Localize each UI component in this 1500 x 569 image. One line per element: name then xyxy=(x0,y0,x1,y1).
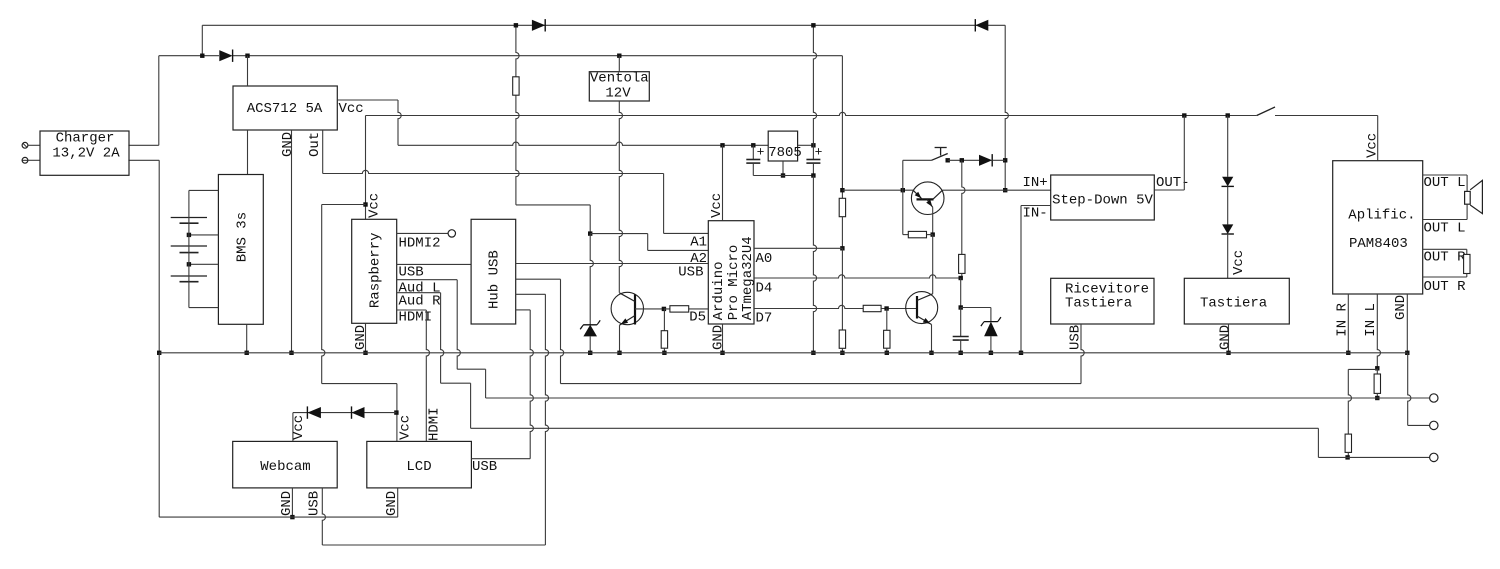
svg-text:HDMI: HDMI xyxy=(399,310,433,326)
diode D10 tastiera feed upper xyxy=(1227,116,1229,177)
junction A2 node xyxy=(588,231,592,235)
wire webcam diode feed (y=413) xyxy=(293,412,397,414)
svg-text:IN+: IN+ xyxy=(1023,175,1048,191)
stub wire to charger - terminal xyxy=(28,159,40,161)
wire aud R line (y=428) jog xyxy=(471,427,1319,429)
wire A0 node down to R5, hops over D4/D7 wires xyxy=(841,248,843,330)
svg-text:USB: USB xyxy=(307,491,323,516)
svg-text:Arduino: Arduino xyxy=(711,261,727,320)
wire down to A2 junction xyxy=(589,205,591,234)
wire A2 node to jog, hop over ventola wire xyxy=(590,233,648,235)
svg-text:ACS712 5A: ACS712 5A xyxy=(247,101,323,117)
transistor Q1 power switch (center 927.7,198) xyxy=(911,182,944,215)
svg-text:7805: 7805 xyxy=(768,145,802,161)
jack terminal circle 1 (aud L) xyxy=(1430,394,1438,402)
resistor R1 battery sense divider top (x=516) xyxy=(516,25,519,77)
wire left branch down through R11, hop over aud L line xyxy=(1348,369,1351,434)
wire charger- (y=160) xyxy=(128,159,159,161)
wire Z1 anode to ground rail xyxy=(589,336,591,352)
wire battery tap 2 to BMS (y=264) xyxy=(189,263,219,265)
wire Z2 down xyxy=(990,308,992,322)
svg-text:GND: GND xyxy=(711,325,727,350)
junction battery tap2 xyxy=(187,262,191,266)
capacitor C2 at 7805 output xyxy=(812,145,814,159)
svg-text:Hub USB: Hub USB xyxy=(487,250,503,309)
pin Webcam GND down xyxy=(291,488,293,517)
wire gnd to jack ring (y=425) xyxy=(1408,353,1411,426)
switch SW1 pushbutton xyxy=(932,154,948,161)
wire branch left from Raspberry Vcc node xyxy=(322,204,366,206)
junction cap/zener node xyxy=(959,305,963,309)
wire riser charger+ up to battery bus xyxy=(158,56,160,146)
wire Q1 lower pin down to Q2 collector node xyxy=(932,207,934,234)
junction Raspberry Vcc node (y=204) xyxy=(363,202,367,206)
pin Raspberry USB to hub xyxy=(397,263,471,265)
svg-text:HDMI2: HDMI2 xyxy=(399,236,441,252)
stub wire to charger + terminal xyxy=(28,144,40,146)
wire bottom ground return (y=517) xyxy=(159,516,398,518)
wire jog right at y=205 xyxy=(516,204,590,206)
block LCD xyxy=(367,441,472,488)
pin Ventola - down to fan transistor collector xyxy=(619,101,622,293)
junction R11 at aud R jack line xyxy=(1345,455,1349,459)
connector terminal circle + of charger xyxy=(22,142,28,148)
block Hub USB xyxy=(471,219,516,324)
svg-text:D7: D7 xyxy=(756,311,773,327)
svg-text:Vcc: Vcc xyxy=(1365,133,1381,158)
zener Z1 clamp on A2 xyxy=(583,325,597,337)
wire diode D3 cathode to 12V riser xyxy=(992,159,1005,161)
pin Raspberry HDMI down to LCD xyxy=(397,309,427,311)
junction tastiera diode feed at 5V rail xyxy=(1226,113,1230,117)
wire R1 bottom down to A2 node jog xyxy=(516,95,519,205)
resistor R4 A0 divider top xyxy=(839,198,845,216)
pin Hub USB port3 (y=294) xyxy=(516,293,546,295)
pin LCD USB right then up to hub xyxy=(471,458,530,460)
wire LCD Vcc riser down xyxy=(396,384,398,442)
block Tastiera keyboard xyxy=(1184,278,1289,324)
battery cell 3 plates xyxy=(171,275,207,277)
pin Hub USB port2 (y=279) xyxy=(516,278,561,280)
wire right to LCD Vcc riser (y=383.6) xyxy=(322,383,397,385)
wire D11 to Tastiera Vcc xyxy=(1227,234,1229,278)
junction D5 base node xyxy=(662,307,666,311)
wire R9 bottom to D4 node xyxy=(961,273,963,278)
svg-text:D5: D5 xyxy=(689,310,706,326)
wire into Arduino A2 xyxy=(648,249,709,251)
wire 7805 output (y=145) xyxy=(798,144,814,146)
jack terminal circle 3 (aud R) xyxy=(1430,453,1438,461)
wire switch line (y=160) to SW1 xyxy=(903,159,932,161)
wire R4 bottom to A0 node xyxy=(841,217,843,249)
battery cell 2 plates xyxy=(171,245,207,247)
wire down to webcam USB rail xyxy=(545,294,548,545)
svg-text:Aud R: Aud R xyxy=(399,294,442,310)
pin ACS712 IP+ top (x=247) xyxy=(247,56,249,86)
pin Hub USB port4 (y=310) xyxy=(516,309,531,311)
pin ACS712 IP- bottom to BMS xyxy=(247,130,249,175)
resistor R7 Q2 base pulldown xyxy=(886,309,888,331)
junction R1 top at 12V bus xyxy=(514,23,518,27)
junction power switch riser at y=190 xyxy=(901,188,905,192)
block Webcam xyxy=(233,441,338,488)
junction BMS at ground rail xyxy=(245,351,249,355)
pin BMS B- bottom to ground rail xyxy=(246,324,248,353)
junction battery tap1 xyxy=(187,233,191,237)
resistor R9 switch sense divider xyxy=(962,160,965,254)
svg-text:HDMI: HDMI xyxy=(427,407,443,441)
svg-text:Charger: Charger xyxy=(56,131,115,147)
pin Hub USB to Arduino USB (y=263.5) xyxy=(516,263,709,265)
wire down to webcam/lcd supply, hop over ground rail xyxy=(322,205,325,384)
wire into Arduino A1 (y=233) xyxy=(664,232,709,234)
wire aud R to jack sleeve (y=457) xyxy=(1318,456,1429,458)
block Aplific. PAM8403 xyxy=(1333,161,1423,294)
junction Ventola feed (619,56) xyxy=(617,54,621,58)
svg-text:BMS 3s: BMS 3s xyxy=(234,212,250,262)
junction webcam diode feed at LCD Vcc xyxy=(394,410,398,414)
wire Arduino A0 (y=248) xyxy=(754,247,842,249)
junction stepdown output riser at 5V rail xyxy=(1182,113,1186,117)
pin PAM8403 OUT L upper to speaker xyxy=(1423,174,1467,176)
wire riser ACS712 Vcc down to 7805 5V rail, hop over 5V stepdown bus xyxy=(398,100,401,145)
wire ricevitore USB rail (y=383.6) xyxy=(561,383,1082,385)
transistor Q2 (NPN, base left) xyxy=(906,292,938,324)
wire Out net (y=173) from ACS712 to Arduino A1 jog, hops over vertical wires xyxy=(323,170,664,173)
wire A2 node down to zener Z1, hop over USB wire xyxy=(590,234,593,325)
wire battery/charger bus (y=56) xyxy=(159,55,219,57)
svg-text:USB: USB xyxy=(472,459,497,475)
svg-text:Aplific.: Aplific. xyxy=(1348,208,1415,224)
svg-text:IN L: IN L xyxy=(1363,303,1379,337)
svg-text:+: + xyxy=(815,145,823,160)
wire SW1 to diode D4s xyxy=(948,159,979,161)
svg-text:Tastiera: Tastiera xyxy=(1200,296,1267,312)
block Ricevitore Tastiera xyxy=(1051,278,1154,324)
wire Arduino D4 (y=278) to switch sense node xyxy=(754,275,960,278)
wire charger- continues down to bottom gnd return xyxy=(158,353,160,517)
wire stepdown output riser up to 5V rail xyxy=(1183,116,1185,191)
pin Raspberry Aud L staircase to audio jack line xyxy=(397,279,458,281)
svg-text:USB: USB xyxy=(399,265,424,281)
block Ventola 12V fan xyxy=(589,72,649,101)
svg-text:Webcam: Webcam xyxy=(260,459,310,475)
block Raspberry xyxy=(352,219,397,323)
wire 12V bus down to 7805 (x=813), hop over battery bus and 5V rail xyxy=(813,25,816,145)
capacitor C3 debounce xyxy=(960,308,962,337)
svg-text:OUT R: OUT R xyxy=(1424,279,1467,295)
switch SW2 blade on 5V rail to amplifier xyxy=(1257,107,1275,116)
junction 12V bus at x=813 xyxy=(811,23,815,27)
junction ACS712 GND at rail xyxy=(289,351,293,355)
pin PAM8403 GND down xyxy=(1406,294,1408,353)
junction at (202,56) xyxy=(200,54,204,58)
svg-text:IN-: IN- xyxy=(1023,206,1048,222)
wire down to LCD USB wire xyxy=(530,310,533,459)
wire Q3 base to D5 resistor xyxy=(635,308,664,310)
pin PAM8403 IN R down to ground rail xyxy=(1347,294,1349,353)
block Charger 13,2V 2A xyxy=(40,131,129,175)
pin Ricevitore USB down to hub rail xyxy=(1081,324,1084,384)
ground rail main (y=353) xyxy=(159,352,1407,354)
svg-text:D4: D4 xyxy=(756,281,773,297)
wire Arduino D7 (y=308.5) to Q2 base resistor xyxy=(754,305,863,308)
svg-text:GND: GND xyxy=(384,491,400,516)
svg-text:OUT R: OUT R xyxy=(1424,250,1467,266)
junction R12 at aud L line xyxy=(1375,396,1379,400)
wire charger+ to riser (y=145) xyxy=(128,144,158,146)
junction Arduino Vcc at 145 rail xyxy=(720,143,724,147)
junction Q1 base resistor node xyxy=(931,232,935,236)
wire top bus 12V (y=25) xyxy=(202,24,1005,26)
block Arduino Pro Micro ATmega32U4 xyxy=(708,221,754,324)
svg-text:GND: GND xyxy=(279,491,295,516)
junction IN L mixer node xyxy=(1375,366,1379,370)
diode D1 charger series (219-233, y=56) xyxy=(219,50,232,61)
wire 12V bus right end down to switched node xyxy=(1005,25,1008,190)
block BMS 3s xyxy=(218,175,263,325)
wire right to zener Z2 xyxy=(961,307,991,309)
svg-text:Step-Down 5V: Step-Down 5V xyxy=(1052,193,1153,209)
wire webcam USB line (y=545) xyxy=(322,544,545,546)
wire battery top cell to BMS (y=190) xyxy=(189,189,219,191)
wire 5V rail left end down to Raspberry Vcc xyxy=(365,116,367,220)
wire battery tap 1 to BMS (y=235) xyxy=(189,234,219,236)
battery column wire xyxy=(188,190,190,307)
svg-text:OUT L: OUT L xyxy=(1424,175,1466,191)
zener Z2 clamp xyxy=(984,322,998,337)
junction A0 node xyxy=(840,246,844,250)
svg-text:ATmega32U4: ATmega32U4 xyxy=(740,236,756,320)
wire 5V rail after switch to PAM8403 Vcc corner xyxy=(1275,115,1378,117)
svg-text:GND: GND xyxy=(280,132,296,157)
resistor R5 A0 divider bottom xyxy=(839,330,845,348)
svg-text:Ventola: Ventola xyxy=(590,71,649,87)
pin Tastiera GND down xyxy=(1228,324,1230,353)
diode D6 on 12V bus pointing left (x=975-988) xyxy=(975,20,988,31)
resistor R12 mixer to aud L xyxy=(1376,368,1378,374)
svg-text:GND: GND xyxy=(1393,295,1409,320)
block 7805 regulator xyxy=(768,131,797,161)
wire 5V rail from stepdown (y=115.5), bump over x=842 vertical xyxy=(366,112,1257,115)
pin ACS712 Out down xyxy=(322,130,324,174)
junction at x=961 on switch wire xyxy=(960,158,964,162)
resistor R2 Arduino D5 series xyxy=(664,308,708,310)
connector terminal circle - of charger xyxy=(22,157,28,163)
diode D9 (left, pointing left) webcam supply xyxy=(307,407,321,418)
svg-text:A1: A1 xyxy=(690,235,707,251)
jack terminal circle 2 (gnd) xyxy=(1430,421,1438,429)
svg-text:Vcc: Vcc xyxy=(291,415,307,440)
pin PAM8403 OUT R upper with resistor R10 xyxy=(1423,248,1467,250)
wire ACS712 Vcc to riser (y=100) xyxy=(337,99,398,101)
wire switched node bus right of Q1 to stepdown IN+ xyxy=(943,189,1051,191)
wire battery bus corner down at x=842 to switch area xyxy=(841,56,843,199)
svg-text:Vcc: Vcc xyxy=(339,101,364,117)
wire switched node bus (y=190) left of Q1 xyxy=(842,189,913,191)
block ACS712 5A current sensor xyxy=(233,86,337,130)
junction Q2 base node xyxy=(884,306,888,310)
wire Q1 node down to Q2 collector, hop over D4 xyxy=(932,235,934,294)
diode D11 tastiera feed lower xyxy=(1222,224,1233,234)
wire mixer node left branch (y=369) xyxy=(1348,368,1377,370)
wire down to cap/zener node xyxy=(960,278,962,308)
svg-text:Vcc: Vcc xyxy=(398,415,414,440)
svg-text:LCD: LCD xyxy=(406,459,431,475)
diode D8 (right, pointing left) webcam supply xyxy=(352,407,365,418)
svg-text:PAM8403: PAM8403 xyxy=(1349,236,1408,252)
svg-text:Vcc: Vcc xyxy=(1231,250,1247,275)
wire jog down for A1 xyxy=(663,174,665,234)
diode D2 on 12V bus (x=532-545) xyxy=(532,20,545,31)
resistor R6 D7 series xyxy=(863,305,881,311)
pin Arduino GND down xyxy=(722,324,724,353)
wire 5V bus mid rail (y=145) feeding ACS712/Arduino from 7805 xyxy=(398,142,768,145)
capacitor C1 at 7805 input xyxy=(752,145,754,159)
junction 7805 input cap at 145 rail xyxy=(751,143,755,147)
svg-text:USB: USB xyxy=(678,265,703,281)
svg-text:A0: A0 xyxy=(756,251,773,267)
wire webcam Vcc down xyxy=(292,413,294,442)
pin Ventola + up to battery bus xyxy=(618,56,620,72)
wire riser joining top bus to battery bus at x=202 xyxy=(201,25,203,55)
junction switched battery node at y=190 xyxy=(840,188,844,192)
svg-text:Vcc: Vcc xyxy=(709,193,725,218)
junction 7805 output at 12V riser xyxy=(811,143,815,147)
pin Arduino Vcc up to 5V mid rail xyxy=(722,145,724,220)
junction D4 sense node xyxy=(959,276,963,280)
junction ACS712 IP+ (247,56) xyxy=(245,54,249,58)
battery cell 1 plates xyxy=(171,217,207,219)
pin ACS712 GND down to ground rail xyxy=(291,130,293,353)
pin PAM8403 OUT R lower xyxy=(1423,276,1467,278)
svg-text:Out: Out xyxy=(307,132,323,157)
junction at switch/diode node (y=160) xyxy=(1003,158,1007,162)
wire down to ricevitore USB rail, hop over ground xyxy=(561,279,564,383)
svg-text:GND: GND xyxy=(353,325,369,350)
svg-text:OUT L: OUT L xyxy=(1424,221,1466,237)
block Step-Down 5V xyxy=(1051,175,1155,220)
junction at IN+ node (y=190) xyxy=(1003,188,1007,192)
svg-text:+: + xyxy=(757,145,765,160)
junction SW1 right contact xyxy=(946,158,950,162)
pin Raspberry GND down to ground rail xyxy=(365,323,367,353)
wire 7805 ground rail down to main ground, hops over Arduino pin wires xyxy=(813,176,816,353)
pin 7805 GND down to cap rail xyxy=(782,161,784,176)
wire battery bottom to BMS (y=308) xyxy=(189,307,219,309)
resistor R11 mixer to aud R xyxy=(1345,434,1351,452)
resistor R8 Q1 base xyxy=(903,234,909,236)
pin PAM8403 OUT L lower xyxy=(1423,219,1467,221)
wire A2 jog down xyxy=(647,234,649,251)
diode D3 switch bypass (y=160) xyxy=(979,155,992,166)
svg-text:USB: USB xyxy=(1068,325,1084,350)
wire between tastiera diodes xyxy=(1227,186,1229,224)
junction gnd rail left end xyxy=(157,351,161,355)
pin Raspberry Aud R staircase xyxy=(397,292,441,294)
svg-text:Tastiera: Tastiera xyxy=(1065,296,1132,312)
svg-text:Vcc: Vcc xyxy=(367,193,383,218)
svg-text:IN R: IN R xyxy=(1335,302,1351,336)
svg-text:Raspberry: Raspberry xyxy=(367,232,383,308)
wire riser from switch down (x=903) xyxy=(902,160,904,234)
pin LCD GND down xyxy=(397,488,399,517)
resistor R3 D5 pulldown xyxy=(663,309,665,331)
pin Raspberry HDMI2 wire and open end circle xyxy=(397,232,449,234)
wire charger- down to ground rail xyxy=(158,160,160,352)
wire Q3 emitter to ground rail xyxy=(619,325,621,353)
wire aud L line (y=398) to jack tip xyxy=(486,397,1430,399)
svg-text:GND: GND xyxy=(1218,325,1234,350)
pin Webcam USB down, hop over gnd return xyxy=(322,488,325,545)
wire stepdown OUT to riser xyxy=(1154,189,1184,191)
pin PAM8403 IN L down to mixer node xyxy=(1377,294,1380,368)
transistor Q3 fan driver (NPN, base right) xyxy=(611,292,643,324)
junction Z1 at ground rail xyxy=(588,351,592,355)
svg-text:13,2V 2A: 13,2V 2A xyxy=(52,146,120,162)
speaker LS1 xyxy=(1466,175,1468,191)
wire battery bus right of diode D1 xyxy=(233,55,842,57)
wire Q2 emitter to ground xyxy=(931,325,933,353)
pin PAM8403 Vcc from 5V rail xyxy=(1377,116,1379,161)
wire 7805 ground rail (y=175.5) xyxy=(753,175,813,177)
svg-text:12V: 12V xyxy=(605,86,631,102)
wire stepdown IN- to ground xyxy=(1021,205,1051,207)
